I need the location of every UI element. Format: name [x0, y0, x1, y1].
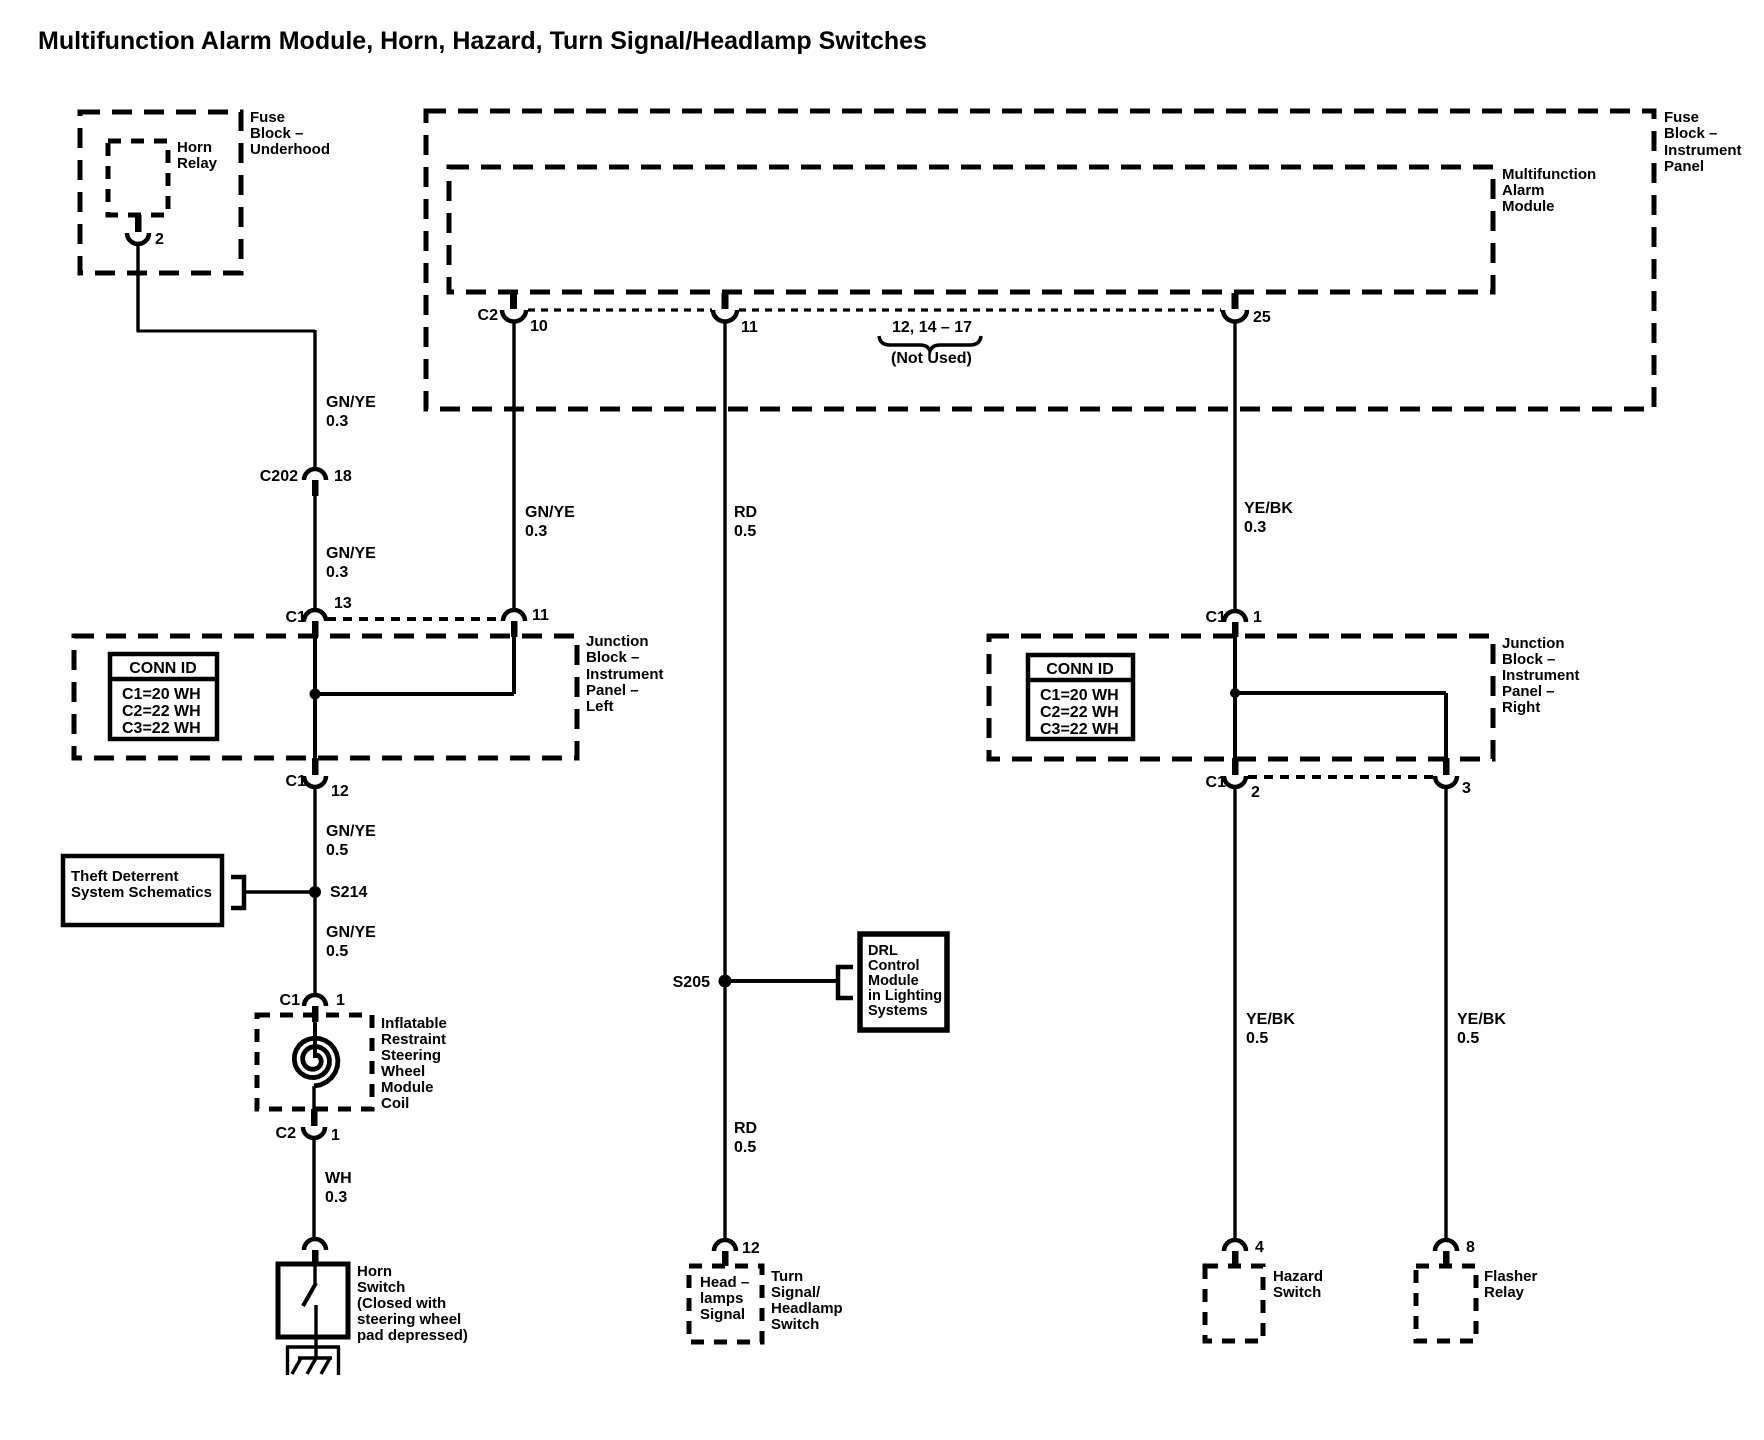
- svg-text:YE/BK: YE/BK: [1457, 1011, 1506, 1028]
- svg-text:C1: C1: [280, 992, 301, 1009]
- svg-text:Multifunction Alarm Module, Ho: Multifunction Alarm Module, Horn, Hazard…: [38, 27, 927, 55]
- svg-text:Instrument: Instrument: [1664, 142, 1742, 159]
- svg-text:0.3: 0.3: [525, 523, 547, 540]
- svg-text:Hazard: Hazard: [1273, 1268, 1323, 1285]
- svg-text:Module: Module: [868, 973, 919, 989]
- svg-text:Panel –: Panel –: [1502, 683, 1555, 700]
- svg-text:System Schematics: System Schematics: [71, 884, 212, 901]
- svg-text:Block –: Block –: [1502, 651, 1555, 668]
- svg-text:Instrument: Instrument: [586, 666, 664, 683]
- svg-text:S214: S214: [330, 884, 367, 901]
- svg-text:18: 18: [334, 468, 352, 485]
- svg-text:Fuse: Fuse: [250, 109, 285, 126]
- svg-text:13: 13: [334, 595, 352, 612]
- svg-text:Coil: Coil: [381, 1095, 409, 1112]
- svg-text:RD: RD: [734, 1120, 757, 1137]
- svg-text:C1: C1: [286, 773, 307, 790]
- svg-text:1: 1: [1253, 609, 1262, 626]
- svg-text:C1=20 WH: C1=20 WH: [1040, 687, 1119, 704]
- svg-text:GN/YE: GN/YE: [326, 394, 376, 411]
- svg-text:C2=22 WH: C2=22 WH: [1040, 704, 1119, 721]
- svg-text:Headlamp: Headlamp: [771, 1300, 843, 1317]
- svg-text:DRL: DRL: [868, 943, 898, 959]
- svg-text:0.5: 0.5: [326, 842, 348, 859]
- svg-text:Block –: Block –: [586, 649, 639, 666]
- svg-text:Underhood: Underhood: [250, 141, 330, 158]
- svg-text:0.3: 0.3: [326, 564, 348, 581]
- svg-text:0.5: 0.5: [734, 523, 756, 540]
- svg-text:0.3: 0.3: [325, 1189, 347, 1206]
- svg-text:Relay: Relay: [1484, 1284, 1525, 1301]
- svg-text:8: 8: [1466, 1239, 1475, 1256]
- svg-text:Module: Module: [1502, 198, 1555, 215]
- svg-text:12, 14 – 17: 12, 14 – 17: [892, 319, 972, 336]
- svg-text:Systems: Systems: [868, 1003, 928, 1019]
- svg-text:Panel: Panel: [1664, 158, 1704, 175]
- svg-text:10: 10: [530, 318, 548, 335]
- svg-text:12: 12: [331, 783, 349, 800]
- svg-text:Head –: Head –: [700, 1274, 749, 1291]
- svg-text:C1: C1: [1206, 774, 1227, 791]
- svg-text:(Closed with: (Closed with: [357, 1295, 446, 1312]
- svg-text:Flasher: Flasher: [1484, 1268, 1538, 1285]
- svg-text:(Not Used): (Not Used): [891, 350, 972, 367]
- svg-text:C2=22 WH: C2=22 WH: [122, 703, 201, 720]
- svg-text:Horn: Horn: [357, 1263, 392, 1280]
- svg-text:pad depressed): pad depressed): [357, 1327, 468, 1344]
- svg-text:Right: Right: [1502, 699, 1540, 716]
- svg-text:0.5: 0.5: [1246, 1030, 1268, 1047]
- svg-text:Switch: Switch: [1273, 1284, 1321, 1301]
- svg-text:Signal/: Signal/: [771, 1284, 821, 1301]
- svg-text:CONN ID: CONN ID: [1046, 661, 1114, 678]
- svg-text:Wheel: Wheel: [381, 1063, 425, 1080]
- svg-text:C1: C1: [1206, 609, 1227, 626]
- svg-text:RD: RD: [734, 504, 757, 521]
- svg-text:GN/YE: GN/YE: [326, 545, 376, 562]
- svg-text:0.5: 0.5: [734, 1139, 756, 1156]
- svg-text:GN/YE: GN/YE: [525, 504, 575, 521]
- svg-text:0.3: 0.3: [1244, 519, 1266, 536]
- svg-text:C1=20 WH: C1=20 WH: [122, 686, 201, 703]
- svg-text:GN/YE: GN/YE: [326, 924, 376, 941]
- svg-text:Relay: Relay: [177, 155, 218, 172]
- svg-text:S205: S205: [673, 974, 710, 991]
- svg-text:Fuse: Fuse: [1664, 109, 1699, 126]
- svg-text:25: 25: [1253, 309, 1271, 326]
- svg-text:Block –: Block –: [250, 125, 303, 142]
- svg-text:12: 12: [742, 1240, 760, 1257]
- svg-text:Junction: Junction: [1502, 635, 1565, 652]
- svg-text:GN/YE: GN/YE: [326, 823, 376, 840]
- svg-text:Steering: Steering: [381, 1047, 441, 1064]
- svg-text:Junction: Junction: [586, 633, 649, 650]
- svg-text:Left: Left: [586, 698, 614, 715]
- svg-text:WH: WH: [325, 1170, 352, 1187]
- svg-text:Instrument: Instrument: [1502, 667, 1580, 684]
- svg-text:Switch: Switch: [357, 1279, 405, 1296]
- svg-text:C2: C2: [478, 307, 499, 324]
- svg-text:Horn: Horn: [177, 139, 212, 156]
- svg-text:11: 11: [532, 607, 549, 624]
- svg-text:Multifunction: Multifunction: [1502, 166, 1596, 183]
- svg-text:2: 2: [155, 231, 164, 248]
- svg-text:Block –: Block –: [1664, 125, 1717, 142]
- svg-text:1: 1: [331, 1127, 340, 1144]
- svg-text:in Lighting: in Lighting: [868, 988, 942, 1004]
- svg-text:0.5: 0.5: [1457, 1030, 1479, 1047]
- svg-text:Signal: Signal: [700, 1306, 745, 1323]
- svg-text:2: 2: [1251, 784, 1260, 801]
- svg-text:Inflatable: Inflatable: [381, 1015, 447, 1032]
- svg-text:Restraint: Restraint: [381, 1031, 446, 1048]
- svg-text:YE/BK: YE/BK: [1246, 1011, 1295, 1028]
- svg-text:steering wheel: steering wheel: [357, 1311, 461, 1328]
- svg-text:1: 1: [336, 992, 345, 1009]
- svg-text:11: 11: [741, 319, 758, 336]
- svg-text:Module: Module: [381, 1079, 434, 1096]
- svg-text:CONN ID: CONN ID: [129, 660, 197, 677]
- svg-text:C3=22 WH: C3=22 WH: [122, 720, 201, 737]
- svg-text:Switch: Switch: [771, 1316, 819, 1333]
- svg-text:C2: C2: [276, 1125, 297, 1142]
- svg-text:Control: Control: [868, 958, 920, 974]
- svg-text:lamps: lamps: [700, 1290, 743, 1307]
- svg-text:Turn: Turn: [771, 1268, 803, 1285]
- svg-text:C3=22 WH: C3=22 WH: [1040, 721, 1119, 738]
- svg-text:Panel –: Panel –: [586, 682, 639, 699]
- svg-text:0.5: 0.5: [326, 943, 348, 960]
- svg-text:YE/BK: YE/BK: [1244, 500, 1293, 517]
- svg-text:4: 4: [1255, 1239, 1264, 1256]
- svg-text:C1: C1: [286, 609, 307, 626]
- svg-text:C202: C202: [260, 468, 298, 485]
- svg-text:Theft Deterrent: Theft Deterrent: [71, 868, 179, 885]
- svg-text:Alarm: Alarm: [1502, 182, 1545, 199]
- svg-text:0.3: 0.3: [326, 413, 348, 430]
- svg-text:3: 3: [1462, 780, 1471, 797]
